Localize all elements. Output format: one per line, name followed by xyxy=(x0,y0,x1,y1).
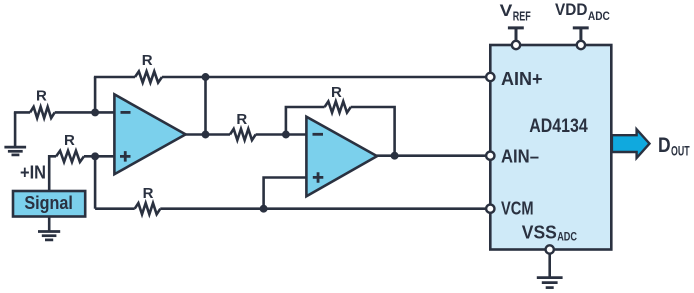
svg-text:+IN: +IN xyxy=(20,163,46,183)
op-amp U2 xyxy=(306,117,377,197)
ground (signal source) xyxy=(38,217,60,240)
svg-text:D: D xyxy=(658,134,671,157)
resistor R2 (U1 feedback) xyxy=(135,71,162,82)
svg-text:ADC: ADC xyxy=(557,232,577,244)
pin VSS_ADC xyxy=(522,222,577,253)
op-amp U1 xyxy=(114,94,185,174)
wire: inverting node up to feedback line (x=95.1) xyxy=(94,77,97,112)
resistor R4 (VCM line) xyxy=(135,203,161,214)
wire: signal box top up and over to resistor R3 xyxy=(49,156,56,191)
svg-text:R: R xyxy=(36,87,47,104)
pin V_REF (top supply) xyxy=(500,1,531,49)
svg-text:R: R xyxy=(64,132,75,149)
ground (left input) xyxy=(4,112,26,154)
wire: U1 output to R5 xyxy=(185,133,230,136)
resistor R1 (input, inverting) xyxy=(30,107,55,118)
node: U2 inverting input junction xyxy=(282,131,290,139)
svg-text:R: R xyxy=(236,111,247,128)
resistor R3 (signal series, non-inverting) xyxy=(56,151,84,162)
wire: U2 inverting node up to feedback line xyxy=(286,107,325,135)
node: U1 inverting input junction xyxy=(91,108,99,116)
wire: non-inverting node down to VCM line (x=95.1) xyxy=(94,156,97,208)
svg-text:OUT: OUT xyxy=(671,143,690,159)
svg-text:AD4134: AD4134 xyxy=(529,116,588,137)
svg-text:VCM: VCM xyxy=(501,199,534,219)
ground (VSS pin) xyxy=(537,254,563,288)
pin VDD_ADC (top supply) xyxy=(555,1,610,49)
node: feedback / U1 output junction (top) xyxy=(202,73,210,81)
pin AIN- xyxy=(486,147,539,167)
svg-text:R: R xyxy=(143,185,154,202)
svg-text:V: V xyxy=(500,1,513,20)
svg-text:REF: REF xyxy=(513,9,531,23)
output arrow D_OUT xyxy=(612,129,650,158)
signal source box "Signal" xyxy=(13,191,85,217)
node: VCM line / U2 non-inverting junction xyxy=(260,205,268,213)
svg-text:VSS: VSS xyxy=(522,222,557,242)
wire: R1 to U1 inverting input xyxy=(55,111,115,114)
wire: VCM line left segment (y=208.7) xyxy=(95,207,135,210)
node: U1 non-inverting input junction xyxy=(91,152,99,160)
wire: U2 output to AIN- pin xyxy=(377,154,486,157)
wire: R4 to VCM pin xyxy=(160,207,486,210)
ADC U3 AD4134 body xyxy=(490,45,611,250)
label "D_OUT" xyxy=(658,134,690,159)
svg-text:Signal: Signal xyxy=(24,192,73,213)
wire: feedback line right segment to AIN+ pin (y=77) xyxy=(162,76,486,79)
resistor R6 (U2 feedback) xyxy=(325,101,351,112)
pin AIN+ xyxy=(486,69,542,89)
svg-text:R: R xyxy=(142,52,153,69)
wire: top junction down to U1 output (x=205.5) xyxy=(204,77,207,135)
wire: junction up and over to U2 non-inverting input xyxy=(264,178,308,209)
svg-text:AIN–: AIN– xyxy=(501,147,539,167)
resistor R5 (interstage) xyxy=(230,129,256,140)
wire: R3 to U1 non-inverting input xyxy=(84,155,115,158)
node: U2 output junction xyxy=(391,152,399,160)
svg-text:R: R xyxy=(331,84,342,101)
wire: R5 to U2 inverting input xyxy=(256,133,308,136)
svg-text:ADC: ADC xyxy=(588,11,610,23)
svg-text:VDD: VDD xyxy=(555,1,587,19)
node: U1 output junction xyxy=(202,131,210,139)
wire: ground corner to resistor R1 (y=112.4) xyxy=(14,111,30,114)
wire: feedback line over and down to U2 output xyxy=(351,107,395,156)
svg-text:AIN+: AIN+ xyxy=(501,69,543,89)
wire: feedback line left segment (y=77) xyxy=(94,76,135,79)
pin VCM xyxy=(486,199,533,219)
